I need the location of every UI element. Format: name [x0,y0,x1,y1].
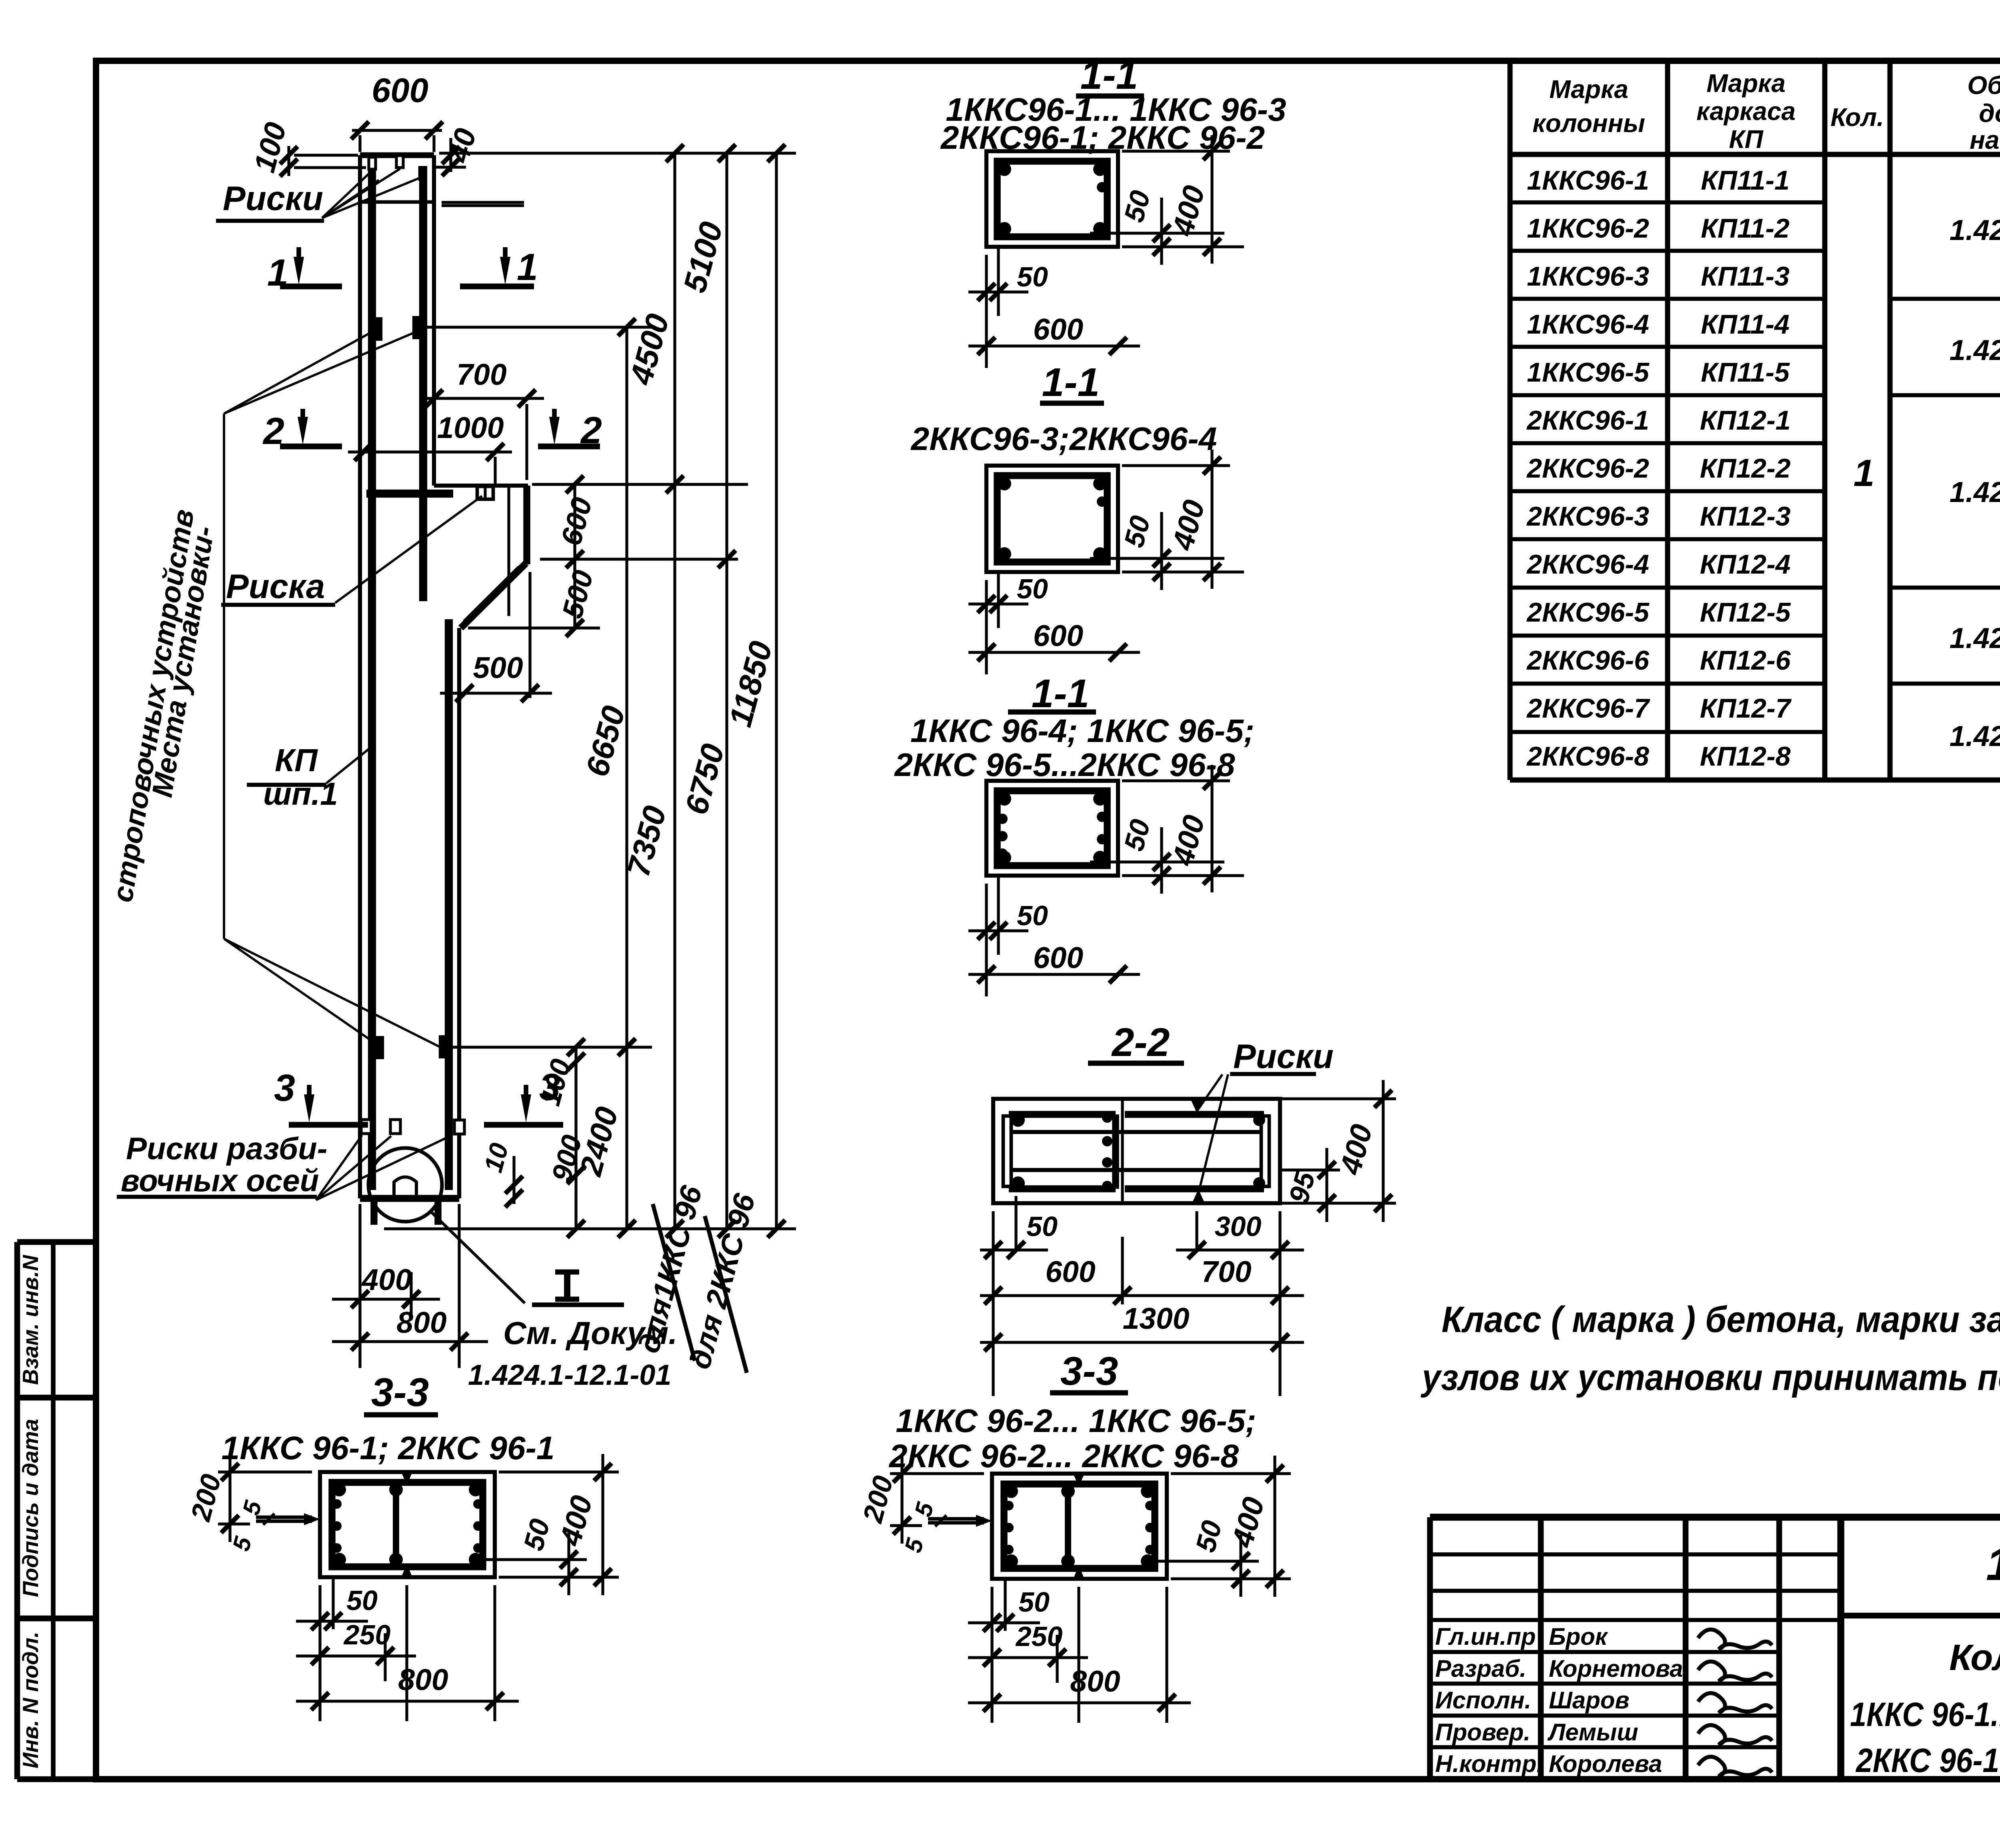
svg-text:на каркас КП: на каркас КП [1970,126,2000,154]
svg-text:КП12-8: КП12-8 [1700,741,1791,772]
svg-text:Разраб.: Разраб. [1435,1655,1526,1682]
svg-text:1-1: 1-1 [1080,53,1138,98]
svg-text:250: 250 [1015,1621,1063,1652]
svg-text:КП11-5: КП11-5 [1701,357,1790,388]
bottom dims 3-3 [318,1585,321,1721]
svg-text:700: 700 [456,358,506,391]
section 1-1 reinforcement cage [997,161,1107,237]
section 1-1 outer outline [986,151,1118,247]
extension lines right side [439,152,796,154]
column base line [360,1195,459,1202]
svg-text:700: 700 [1201,1255,1251,1288]
svg-text:1ККС 96-4; 1ККС 96-5;: 1ККС 96-4; 1ККС 96-5; [910,713,1254,749]
svg-text:500: 500 [473,651,523,684]
dimension 200 left 3-3 [890,1472,984,1475]
upper strop marks [374,317,382,341]
svg-text:Исполн.: Исполн. [1435,1687,1531,1714]
dimension 1000 console [348,450,512,453]
dimension 400 right 3-3 [1171,1472,1291,1475]
svg-text:1-1: 1-1 [1042,360,1100,405]
svg-text:1.424. 1 - 12. 1 - 08: 1.424. 1 - 12. 1 - 08 [1986,1539,2000,1590]
svg-text:1.424.1-12.2-33: 1.424.1-12.2-33 [1950,622,2000,654]
section 3-3 outline [992,1474,1167,1579]
risk squares at column top [369,157,376,169]
svg-text:1ККС96-4: 1ККС96-4 [1527,309,1649,340]
svg-text:50: 50 [1018,1586,1050,1618]
dimension 700 console [420,397,544,400]
dimension 50 bottom [985,255,988,368]
svg-text:2ККС96-6: 2ККС96-6 [1526,645,1650,676]
column left rebar [368,166,376,1190]
svg-text:КП12-6: КП12-6 [1700,645,1791,676]
svg-text:2ККС 96-1... 2ККС 96-8: 2ККС 96-1... 2ККС 96-8 [1855,1742,2000,1779]
svg-text:1.424.1-12.2-34: 1.424.1-12.2-34 [1950,720,2000,752]
bottom dimension 800 [332,1340,488,1343]
svg-text:2-2: 2-2 [1111,1020,1170,1065]
svg-text:1ККС96-3: 1ККС96-3 [1527,261,1649,292]
sidebar stamp boxes [17,1239,96,1245]
svg-text:КП: КП [1729,125,1764,154]
dimension 600 700 bottom 2-2 [1278,1211,1281,1396]
axis risk squares near base [361,1120,371,1134]
dimension 50 right 3-3 [483,1558,587,1561]
risk bars below base [370,1198,377,1225]
svg-text:2ККС96-1: 2ККС96-1 [1526,405,1649,436]
svg-text:3: 3 [274,1067,295,1109]
section 3-3 outline [320,1472,495,1577]
svg-text:Риски разби-: Риски разби- [126,1131,328,1166]
svg-text:колонны: колонны [1532,109,1645,138]
svg-text:2: 2 [580,409,602,452]
section rebar corner dots [998,792,1011,806]
dimension line C 5100 6750 [725,153,728,1229]
table of column marks [1508,64,1513,780]
svg-text:КП12-5: КП12-5 [1700,597,1791,628]
leader to detail I [431,1212,525,1303]
svg-text:50: 50 [1017,261,1048,292]
svg-text:Риски: Риски [223,180,323,218]
dimension line D 11850 [775,153,778,1229]
dimension 50 right [1090,232,1224,234]
svg-text:2ККС 96-5...2ККС 96-8: 2ККС 96-5...2ККС 96-8 [894,747,1235,783]
signatures scribbles [1698,1630,1772,1649]
dimension 50 bottom [985,580,988,674]
svg-text:2ККС96-2: 2ККС96-2 [1526,453,1649,484]
svg-text:2ККС96-7: 2ККС96-7 [1526,693,1650,724]
column right rebar upper [419,166,427,601]
svg-text:50: 50 [1026,1211,1058,1242]
svg-text:Корнетова: Корнетова [1549,1655,1683,1682]
weld arrow left 3-3 [928,1517,984,1521]
svg-text:Гл.ин.пр: Гл.ин.пр [1435,1623,1536,1650]
column lower right rebar [445,619,453,1190]
dimension 600 bottom [968,973,1140,976]
dimension 50 right [1090,860,1224,863]
svg-text:1: 1 [517,246,538,288]
svg-text:Брок: Брок [1549,1623,1608,1650]
svg-text:2ККС96-3: 2ККС96-3 [1526,501,1649,532]
svg-text:3-3: 3-3 [1060,1349,1118,1394]
svg-text:1ККС96-5: 1ККС96-5 [1527,357,1650,388]
svg-text:600: 600 [1033,312,1083,346]
section 1-1 reinforcement cage [997,476,1107,562]
svg-text:2ККС 96-2... 2ККС 96-8: 2ККС 96-2... 2ККС 96-8 [888,1438,1239,1474]
section 1-1 reinforcement cage [997,791,1107,866]
svg-text:Взам. инв.N: Взам. инв.N [18,1254,43,1385]
section 1-1 outer outline [986,466,1118,572]
svg-text:Марка: Марка [1549,75,1628,104]
section 1-1 outer outline [986,781,1118,876]
section 3-3 corner dots [332,1483,346,1496]
svg-text:800: 800 [396,1306,446,1339]
dimension 300 bottom 2-2 [1195,1211,1198,1252]
section rebar corner dots [998,477,1011,490]
svg-text:1-1: 1-1 [1032,671,1090,716]
risk axis marks 2-2 [1190,1099,1203,1113]
section 3-3 reinforcement cage [332,1482,483,1567]
svg-text:КП12-3: КП12-3 [1700,501,1791,532]
svg-text:Риска: Риска [226,568,325,606]
svg-text:2ККС96-5: 2ККС96-5 [1526,597,1650,628]
column elevation outline [360,152,434,158]
dimension line A 6650 2400 [625,327,628,1229]
dimension 200 left 3-3 [218,1470,312,1473]
svg-text:Обозначение: Обозначение [1967,71,2000,100]
detail mark I [564,1272,570,1299]
weld arrow left 3-3 [256,1516,312,1519]
svg-text:800: 800 [1070,1664,1120,1698]
svg-text:300: 300 [1215,1211,1262,1242]
dimension 400 right 2-2 [1282,1097,1396,1100]
svg-text:400: 400 [361,1263,412,1296]
svg-text:каркаса: каркаса [1696,97,1796,126]
svg-text:600: 600 [1033,941,1083,974]
dimension line B 4500 7350 [673,153,676,1229]
svg-text:КП11-4: КП11-4 [1701,309,1790,340]
svg-text:КП12-2: КП12-2 [1700,453,1791,484]
svg-text:1ККС96-1: 1ККС96-1 [1527,165,1649,196]
svg-text:2ККС96-3;2ККС96-4: 2ККС96-3;2ККС96-4 [910,421,1217,457]
section 3-3 middle divider [393,1482,399,1567]
svg-text:Провер.: Провер. [1435,1719,1530,1746]
svg-text:КП11-3: КП11-3 [1701,261,1790,292]
dimension 50 right [1090,557,1224,560]
svg-text:Лемыш: Лемыш [1547,1719,1638,1746]
svg-text:3-3: 3-3 [371,1370,429,1415]
risk extension lines top right [442,201,524,204]
svg-text:Кол.: Кол. [1830,103,1884,132]
svg-text:Колонна: Колонна [1949,1637,2000,1678]
svg-text:250: 250 [343,1619,391,1650]
console bracket [434,484,528,488]
svg-text:шп.1: шп.1 [263,776,338,812]
dimension 400 right 3-3 [499,1470,619,1473]
dimension 400 right [1122,464,1230,467]
section 3-3 reinforcement cage [1004,1484,1155,1568]
dimension 500 horizontal below console [440,692,552,694]
detail circle at base [368,1148,442,1222]
dimension 600 top [352,129,442,132]
section 2-2 end plates [1003,1116,1011,1186]
dimension 1300 bottom 2-2 [980,1341,1304,1344]
dimension 50 bottom [985,884,988,996]
svg-text:1ККС96-2: 1ККС96-2 [1527,213,1649,244]
svg-text:1000: 1000 [437,411,504,444]
svg-text:800: 800 [398,1663,448,1696]
svg-text:КП12-7: КП12-7 [1700,693,1792,724]
column lower right edge [457,628,461,1198]
svg-text:КП: КП [275,742,318,778]
svg-text:Инв. N подл.: Инв. N подл. [18,1632,43,1768]
svg-text:2ККС96-4: 2ККС96-4 [1526,549,1649,580]
svg-text:1ККС 96-2... 1ККС 96-5;: 1ККС 96-2... 1ККС 96-5; [896,1403,1256,1439]
section rebar corner dots [998,162,1011,176]
section 2-2 reinforcement [1009,1111,1116,1118]
svg-text:1.424.1-12.1-01: 1.424.1-12.1-01 [468,1359,671,1391]
svg-text:1: 1 [1854,452,1875,494]
svg-text:узлов их установки принимат: узлов их установки принимать по чертежам… [1420,1357,2000,1398]
section 3-3 corner dots [1004,1484,1018,1498]
svg-text:Риски: Риски [1233,1038,1334,1076]
svg-text:600: 600 [372,72,428,110]
svg-text:Марка: Марка [1706,69,1786,98]
dimension 50 right 3-3 [1155,1560,1259,1562]
bottom dimension 400 [358,1204,361,1368]
dimension 600 bottom [968,651,1140,654]
svg-text:2ККС96-8: 2ККС96-8 [1526,741,1649,772]
svg-text:документа: документа [1979,99,2000,128]
svg-text:КП11-2: КП11-2 [1701,213,1790,244]
embedded plate on console [477,486,493,499]
svg-text:КП12-1: КП12-1 [1700,405,1791,436]
svg-text:50: 50 [1017,900,1048,931]
title block grid [1430,1514,2000,1520]
dimension 95 right 2-2 [1282,1168,1340,1171]
svg-text:1.424.1-12.2-30: 1.424.1-12.2-30 [1950,214,2000,246]
section 2-2 rebar dots [1011,1113,1025,1127]
svg-text:Подпись и дата: Подпись и дата [18,1419,43,1597]
svg-text:Королева: Королева [1549,1750,1662,1777]
svg-text:600: 600 [1033,619,1083,652]
dimension 100 top left [287,146,290,176]
bottom sub-dim chain 100 900 [574,1047,577,1229]
axis marks 3-3 [401,1472,412,1485]
svg-text:50: 50 [1017,573,1048,604]
section 3-3 middle divider [1065,1484,1071,1568]
svg-text:Шаров: Шаров [1549,1687,1630,1714]
dimension 40 top right [449,138,452,172]
section 2-2 outline [993,1099,1280,1203]
section mark 1 right [503,247,508,265]
риски leader lines 2-2 [1197,1074,1222,1111]
svg-text:Н.контр.: Н.контр. [1435,1750,1543,1777]
svg-text:1ККС 96-1... 1ККС 96-5 ;: 1ККС 96-1... 1ККС 96-5 ; [1850,1696,2000,1733]
svg-text:Класс ( марка ) бетона, марки: Класс ( марка ) бетона, марки закладных … [1442,1299,2000,1340]
svg-text:50: 50 [346,1585,378,1616]
bottom dims 3-3 [990,1587,993,1723]
strop leader lines [223,414,225,939]
dimension 10 near base [512,1156,515,1204]
section mark 3 right [524,1085,528,1102]
lower strop marks [376,1036,384,1059]
section mark 2 right [552,409,557,425]
dimension 600 bottom [968,344,1140,347]
svg-text:1.424.1-12.2-32: 1.424.1-12.2-32 [1950,476,2000,508]
svg-text:КП12-4: КП12-4 [1700,549,1791,580]
svg-text:1ККС 96-1; 2ККС 96-1: 1ККС 96-1; 2ККС 96-1 [221,1430,554,1466]
sub-dim chain 600 500 right of console [573,484,576,628]
svg-text:1.424.1-12.2-31: 1.424.1-12.2-31 [1950,334,2000,366]
svg-text:вочных осей: вочных осей [121,1163,319,1198]
dimension 400 right [1122,150,1230,152]
svg-text:600: 600 [1045,1255,1095,1288]
dimension 400 right [1122,779,1230,782]
svg-text:КП11-1: КП11-1 [1701,165,1790,196]
svg-text:1300: 1300 [1123,1302,1190,1335]
axis marks 3-3 [1073,1474,1084,1487]
dimension 50 bottom 2-2 [992,1211,994,1396]
